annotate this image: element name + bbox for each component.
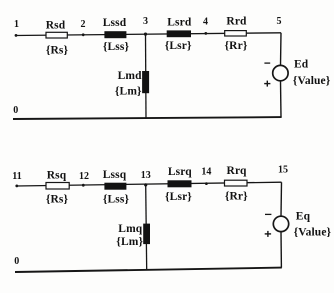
svg-text:{Lss}: {Lss} [103, 194, 130, 206]
svg-text:{Value}: {Value} [294, 227, 332, 239]
wire source down to bottom rail [280, 231, 282, 267]
svg-text:Rrq: Rrq [227, 165, 247, 177]
svg-text:{Lss}: {Lss} [103, 41, 130, 53]
svg-text:0: 0 [14, 256, 19, 267]
inductor Lmd [142, 71, 149, 93]
svg-text:Rrd: Rrd [226, 15, 247, 27]
wire bottom rail (q) [15, 268, 282, 272]
svg-text:{Rs}: {Rs} [46, 193, 69, 205]
svg-text:{Lm}: {Lm} [116, 236, 143, 248]
svg-text:{Rr}: {Rr} [225, 40, 248, 52]
wire top rail node11 to node15 [16, 182, 282, 186]
svg-text:5: 5 [277, 16, 282, 27]
wire center vertical node13 down [146, 185, 147, 270]
inductor Lsrd [167, 30, 191, 37]
svg-text:Lssq: Lssq [103, 169, 127, 181]
svg-text:12: 12 [79, 171, 89, 182]
svg-text:Eq: Eq [296, 211, 311, 223]
wire top rail node1 to node5 [15, 33, 281, 36]
svg-text:Lsrd: Lsrd [167, 16, 192, 28]
svg-text:Rsd: Rsd [46, 19, 66, 31]
svg-text:{Value}: {Value} [293, 75, 331, 87]
svg-text:2: 2 [81, 19, 86, 30]
svg-text:Rsq: Rsq [47, 169, 67, 181]
svg-text:1: 1 [14, 19, 19, 30]
wire center vertical node3 down [145, 34, 148, 118]
wire right vertical node5 to source [280, 33, 283, 66]
source Eq [273, 216, 288, 231]
inductor Lssd [104, 31, 126, 38]
svg-text:Lsrq: Lsrq [168, 166, 192, 178]
svg-text:13: 13 [141, 170, 151, 181]
svg-text:{Rs}: {Rs} [46, 45, 69, 57]
svg-text:Ed: Ed [294, 58, 309, 70]
svg-text:Lssd: Lssd [103, 17, 127, 29]
svg-text:{Lm}: {Lm} [115, 86, 142, 98]
svg-text:{Lsr}: {Lsr} [165, 40, 192, 52]
wire bottom rail [13, 117, 282, 119]
svg-text:11: 11 [12, 171, 21, 182]
svg-text:3: 3 [143, 16, 148, 27]
wire source down to bottom rail [280, 81, 283, 118]
node 14 junction dot [205, 182, 208, 185]
svg-text:{Rr}: {Rr} [225, 191, 248, 203]
resistor Rsq [46, 183, 69, 190]
svg-text:0: 0 [13, 105, 18, 116]
source Ed [273, 65, 288, 80]
node 3 junction dot [144, 33, 147, 36]
node 12 junction dot [82, 184, 85, 187]
inductor Lmq [143, 224, 150, 245]
svg-text:Lmd: Lmd [118, 70, 142, 82]
inductor Lssq [104, 183, 126, 190]
svg-text:14: 14 [201, 167, 211, 178]
node 4 junction dot [204, 32, 207, 35]
svg-text:Lmq: Lmq [118, 223, 142, 235]
resistor Rrd [225, 31, 247, 36]
node 2 junction dot [82, 33, 85, 36]
wire right vertical node15 to source [280, 182, 283, 216]
svg-text:4: 4 [203, 16, 208, 27]
svg-text:15: 15 [278, 164, 288, 175]
node 13 junction dot [144, 183, 147, 186]
inductor Lsrq [168, 180, 192, 187]
resistor Rrq [225, 180, 248, 186]
svg-text:{Lsr}: {Lsr} [165, 191, 192, 203]
resistor Rsd [46, 32, 67, 38]
